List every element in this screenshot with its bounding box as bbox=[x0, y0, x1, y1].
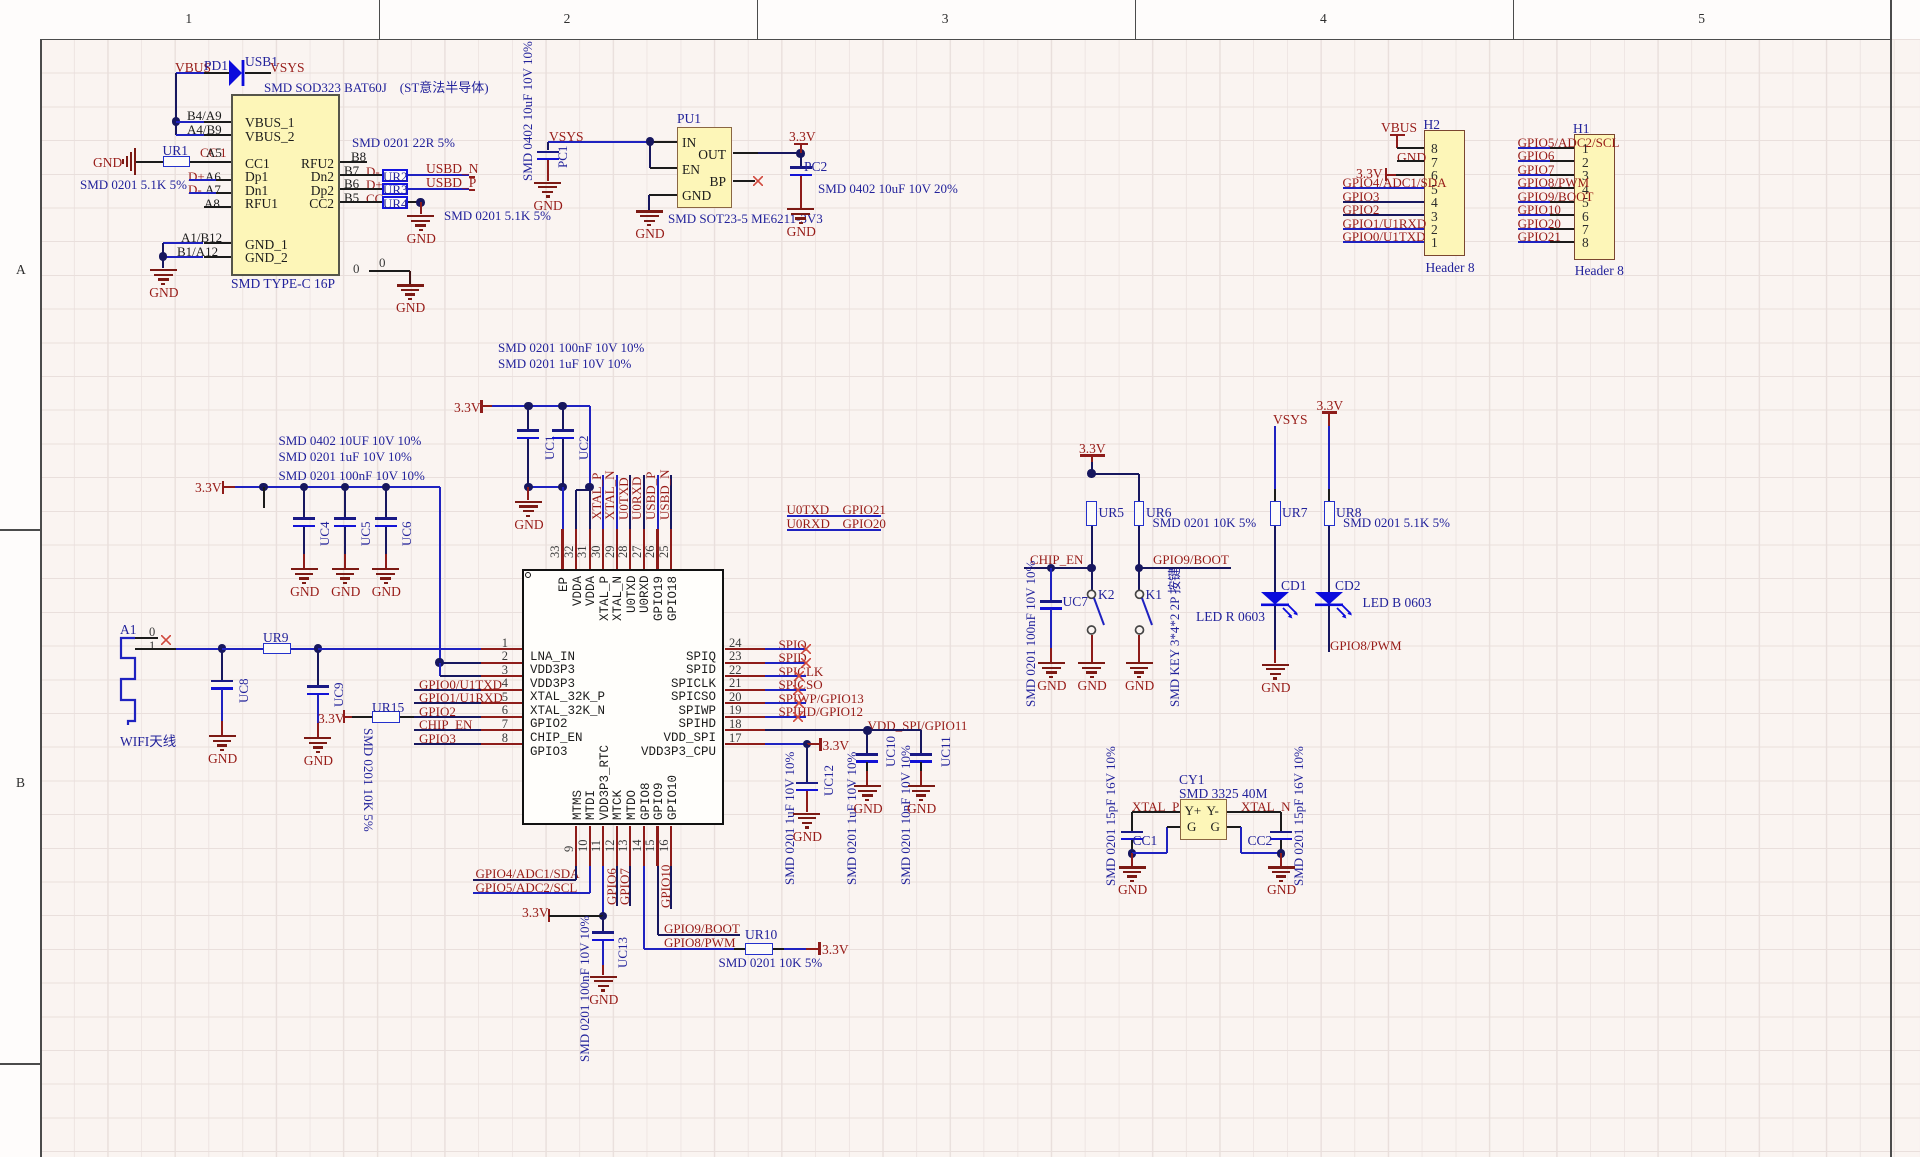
wire CHIP_EN bbox=[1024, 567, 1092, 569]
capacitor UC12 bbox=[806, 744, 808, 782]
LED CD1 value bbox=[1196, 609, 1265, 625]
wire XTAL_N to CC2 bbox=[1227, 811, 1281, 813]
values for UC4 UC5 UC6 bbox=[279, 433, 422, 449]
net label GPIO5/ADC2/SCL bbox=[476, 880, 578, 896]
ground below UR4 bbox=[420, 202, 422, 214]
USB Type-C connector J1 body bbox=[231, 94, 340, 276]
wire pin13 GPIO7 bbox=[629, 866, 631, 906]
net table U0RXD GPIO20 bbox=[787, 516, 830, 532]
IC pin 18 VDD_SPI bbox=[725, 729, 766, 731]
wire RFU2 bbox=[340, 161, 367, 163]
junction bbox=[416, 198, 424, 206]
IC pin 4 XTAL_32K_P bbox=[481, 689, 522, 691]
resistor UR7 bbox=[1270, 501, 1281, 526]
capacitor CC2 bbox=[1270, 831, 1292, 834]
resistor UR5 bbox=[1086, 501, 1097, 526]
wire GND_1 bbox=[163, 242, 203, 244]
net label USBD_P vertical bbox=[657, 475, 659, 529]
IC pin 29 XTAL_N bbox=[616, 529, 618, 569]
IC pin 3 VDD3P3 bbox=[481, 675, 522, 677]
net label USBD_N bbox=[426, 161, 479, 177]
net label SPICSO bbox=[779, 677, 823, 693]
net label USB1 bbox=[245, 54, 278, 70]
IC pin 16 GPIO10 bbox=[670, 826, 672, 867]
power 3.3V above UR8 bbox=[1317, 398, 1344, 414]
IC pin 22 SPICLK bbox=[725, 675, 766, 677]
UC13 value vertical bbox=[577, 916, 593, 1062]
wire to K2 bbox=[1091, 568, 1093, 590]
wire CC2 to UR4 bbox=[340, 201, 382, 203]
LED CD2 bbox=[1313, 590, 1361, 624]
net label VBUS bbox=[175, 60, 211, 76]
wire RFU1 bbox=[204, 206, 231, 208]
ground below PC1 bbox=[547, 160, 549, 181]
ground below UC10 bbox=[866, 762, 868, 771]
wire 0 ohm to gnd bbox=[369, 270, 410, 272]
wire UR3 to USBD_P bbox=[408, 188, 469, 190]
wire CD2 to GPIO8/PWM bbox=[1328, 606, 1330, 652]
net label GPIO0/U1TXD bbox=[419, 677, 502, 693]
UC7 value vertical bbox=[1023, 561, 1039, 707]
wire Dp1 bbox=[189, 179, 216, 181]
wire Dn1 bbox=[189, 192, 216, 194]
CC1 value vertical bbox=[1103, 746, 1119, 886]
PC2 value bbox=[818, 181, 958, 197]
wire BP no connect bbox=[733, 180, 756, 182]
net label XTAL_P bbox=[1132, 799, 1179, 815]
capacitor UC11 bbox=[920, 730, 922, 753]
wire UR8 to CD2 bbox=[1328, 526, 1330, 592]
Type-C value SMD TYPE-C 16P bbox=[231, 276, 335, 292]
H2 net label GPIO3 bbox=[1343, 189, 1380, 205]
H1 net label GPIO7 bbox=[1518, 162, 1555, 178]
IC pin 33 EP bbox=[561, 529, 563, 569]
resistor UR1 bbox=[163, 156, 191, 168]
pin label B5 CC bbox=[344, 190, 359, 206]
wire to UR6 bbox=[1092, 473, 1140, 475]
resistor UR9 bbox=[263, 643, 291, 655]
pin label A8 bbox=[204, 196, 220, 212]
wire to K1 bbox=[1138, 568, 1140, 590]
power 3.3V left rail bbox=[195, 480, 222, 496]
net table U0TXD GPIO21 bbox=[787, 502, 830, 518]
capacitor UC5 bbox=[341, 483, 349, 491]
capacitor UC1 bbox=[524, 402, 532, 410]
crystal CY1 body bbox=[1180, 799, 1227, 841]
wire UR6 to GPIO9 bbox=[1138, 526, 1140, 568]
wire UR4 to gnd bbox=[408, 201, 421, 203]
net label CHIP_EN bbox=[1030, 552, 1083, 568]
H2 pin8 VBUS bbox=[1381, 120, 1417, 136]
IC pin 24 SPIQ bbox=[725, 648, 766, 650]
pin label A1/B12 bbox=[181, 230, 222, 246]
wire VDD3P3_CPU to 3.3V bbox=[765, 743, 807, 745]
net label U0TXD vertical bbox=[629, 475, 631, 529]
H2 net label GPIO4/ADC1/SDA bbox=[1343, 175, 1447, 191]
LED CD1 bbox=[1259, 590, 1307, 624]
antenna pin 0 no connect bbox=[135, 637, 158, 639]
K1 value vertical SMD KEY bbox=[1164, 568, 1183, 707]
ground below UC4 bbox=[303, 527, 305, 555]
H2 net label GPIO2 bbox=[1343, 202, 1380, 218]
diode D1 value SMD SOD323 BAT60J bbox=[264, 77, 489, 96]
wires VDDA pins to 3.3V bbox=[562, 487, 564, 528]
IC pin 1 LNA_IN bbox=[481, 648, 522, 650]
net label SPICLK bbox=[779, 664, 824, 680]
net label VDD_SPI/GPIO11 bbox=[868, 718, 968, 734]
IC pin 25 GPIO18 bbox=[670, 529, 672, 569]
resistor UR15 bbox=[372, 711, 400, 723]
capacitor PC1 value vertical bbox=[520, 41, 536, 181]
wire pin9 to GPIO4 bbox=[575, 866, 577, 880]
wire CY1 G pin right bbox=[1227, 826, 1241, 828]
IC pin 14 GPIO8 bbox=[643, 826, 645, 867]
diode D1 bbox=[228, 59, 246, 87]
ground below UC9 bbox=[317, 695, 319, 724]
capacitor UC8 bbox=[221, 649, 223, 680]
net label GPIO8/PWM bbox=[1330, 638, 1402, 654]
IC pin 28 U0TXD bbox=[629, 529, 631, 569]
wire gnd vertical bbox=[162, 243, 164, 269]
wire VSYS to UR7 bbox=[1274, 426, 1276, 489]
resistor UR4 bbox=[382, 196, 409, 209]
H2 pin6 3.3V bbox=[1356, 166, 1383, 182]
capacitor UC9 bbox=[317, 649, 319, 686]
net label SPID bbox=[779, 650, 807, 666]
wire CD1 to gnd bbox=[1274, 606, 1276, 650]
net label GPIO9/BOOT bbox=[664, 921, 740, 937]
IC pin 9 MTMS bbox=[575, 826, 577, 867]
wire 3.3V rail down to IC bbox=[439, 487, 441, 663]
wire XTAL_P to CC1 bbox=[1132, 811, 1180, 813]
net label D+ / pin A6 bbox=[188, 169, 205, 185]
H2 net label GPIO1/U1RXD bbox=[1343, 216, 1427, 232]
IC pin 26 GPIO19 bbox=[656, 529, 658, 569]
wire pin16 GPIO10 bbox=[670, 866, 672, 909]
net label GPIO9/BOOT bbox=[1153, 552, 1229, 568]
IC pin 10 MTDI bbox=[589, 826, 591, 867]
wire UR5 to CHIP_EN bbox=[1091, 526, 1093, 568]
IC pin 2 VDD3P3 bbox=[481, 662, 522, 664]
H1 net label GPIO20 bbox=[1518, 216, 1561, 232]
net label USBD_P bbox=[426, 175, 476, 191]
wire pin10 to GPIO5 bbox=[589, 866, 591, 893]
capacitor UC4 bbox=[300, 483, 308, 491]
sheet frame and ruler bbox=[0, 0, 1920, 39]
antenna pin 1 bbox=[149, 639, 155, 654]
power symbol 3.3V bbox=[789, 129, 816, 145]
values for UC1 UC2 bbox=[498, 340, 644, 356]
value SMD 0201 22R 5% bbox=[352, 135, 455, 151]
IC pin 21 SPICSO bbox=[725, 689, 766, 691]
wire Dn2 to UR2 bbox=[340, 174, 382, 176]
IC pin 13 MTDO bbox=[629, 826, 631, 867]
capacitor CC1 bbox=[1121, 831, 1143, 834]
capacitor PC2 bbox=[800, 153, 802, 166]
IC pin1 mark bbox=[525, 572, 531, 578]
wire UR2 to USBD_N bbox=[408, 174, 469, 176]
ground below UC13 bbox=[602, 941, 604, 965]
wire UR7 to CD1 bbox=[1274, 526, 1276, 592]
wire antenna to LNA_IN bbox=[318, 648, 481, 650]
voltage regulator PU1 bbox=[677, 127, 732, 208]
IC pin 7 CHIP_EN bbox=[481, 729, 522, 731]
diode D1 designator PD1 bbox=[204, 58, 228, 74]
power 3.3V above UR5 bbox=[1079, 441, 1106, 457]
wire UR1 to CC1 pin bbox=[190, 161, 231, 163]
junction bbox=[1087, 469, 1095, 477]
resistor UR10 bbox=[745, 943, 773, 955]
net label XTAL_N bbox=[1241, 799, 1291, 815]
net label USBD_N vertical bbox=[670, 475, 672, 529]
ground below 0 ohm bbox=[397, 284, 424, 286]
pin label B7 D- bbox=[344, 163, 359, 179]
pin label B8 bbox=[351, 149, 366, 165]
wire pin15 GPIO9 bbox=[657, 866, 659, 935]
IC pin 5 XTAL_32K_N bbox=[481, 702, 522, 704]
H1 net label GPIO21 bbox=[1518, 229, 1561, 245]
ground symbol left of UR1 (rotated) bbox=[93, 155, 122, 171]
pin label B1/A12 bbox=[177, 244, 218, 260]
UR15 value vertical bbox=[360, 728, 376, 832]
junction UC8 bbox=[218, 644, 226, 652]
pin label B4/A9 bbox=[187, 108, 222, 124]
ground below CC1 bbox=[1131, 853, 1133, 865]
resistor UR8 bbox=[1324, 501, 1335, 526]
net label CHIP_EN bbox=[419, 717, 472, 733]
IC pin 17 VDD3P3_CPU bbox=[725, 743, 766, 745]
wire OUT to 3.3V bbox=[733, 152, 759, 154]
wire 3.3V to VDD3P3 pins bbox=[435, 658, 443, 666]
net label GPIO4/ADC1/SDA bbox=[476, 866, 580, 882]
Type-C inside pin names bbox=[245, 115, 295, 131]
main IC U1 body bbox=[522, 569, 725, 826]
resistor UR3 bbox=[382, 183, 409, 196]
wire to VBUS_1 pin bbox=[176, 121, 204, 123]
H1 net label GPIO8/PWM bbox=[1518, 175, 1590, 191]
ground below UC6 bbox=[385, 527, 387, 555]
ground below UC8 bbox=[221, 689, 223, 721]
UR6 value bbox=[1153, 515, 1257, 531]
ground below UC7 bbox=[1050, 609, 1052, 648]
net label U0RXD vertical bbox=[643, 475, 645, 529]
net label VSYS bbox=[270, 60, 305, 76]
H1 net label GPIO10 bbox=[1518, 202, 1561, 218]
wire UR15 to GPIO2 bbox=[400, 716, 414, 718]
capacitor UC2 bbox=[558, 402, 566, 410]
H2 pin7 GND bbox=[1397, 150, 1426, 166]
net label GPIO1/U1RXD bbox=[419, 690, 503, 706]
IC pin 32 VDDA bbox=[575, 529, 577, 569]
capacitor UC13 bbox=[602, 916, 604, 932]
wire UC8 to UR9 bbox=[222, 648, 263, 650]
H1 net label GPIO5/ADC2/SCL bbox=[1518, 135, 1620, 151]
gnd rail under UC1 UC2 bbox=[527, 439, 529, 488]
IC pin 11 VDD3P3_RTC bbox=[602, 826, 604, 867]
pin label A4/B9 bbox=[187, 122, 222, 138]
IC pin 31 VDDA bbox=[589, 529, 591, 569]
wire CC2 to gnd junction bbox=[1280, 840, 1282, 854]
value SMD 0201 5.1K 5% bbox=[444, 208, 551, 224]
net label SPIHD/GPIO12 bbox=[779, 704, 864, 720]
wire diode cathode to VSYS bbox=[245, 72, 271, 74]
resistor UR6 bbox=[1134, 501, 1145, 526]
junction IN/EN bbox=[646, 137, 654, 145]
CC2 value vertical bbox=[1291, 746, 1307, 886]
resistor 0 ohm labels bbox=[353, 261, 360, 277]
H1 net label GPIO9/BOOT bbox=[1518, 189, 1594, 205]
net label SPIWP/GPIO13 bbox=[779, 691, 864, 707]
power 3.3V tick bbox=[807, 743, 821, 745]
antenna A1 bbox=[120, 622, 137, 638]
stub wire bbox=[259, 483, 267, 491]
ground below PU1 bbox=[636, 210, 663, 212]
IC pin 30 XTAL_P bbox=[602, 529, 604, 569]
UR8 value bbox=[1343, 515, 1450, 531]
switch K2 bbox=[1083, 588, 1113, 636]
crystal CY1 designator bbox=[1179, 772, 1205, 788]
wire pin14 GPIO8 to UR10 bbox=[643, 866, 645, 949]
UR1 value SMD 0201 5.1K 5% bbox=[80, 177, 187, 193]
header H1 bbox=[1574, 134, 1615, 260]
PU1 value SMD SOT23-5 ME6211-3V3 bbox=[668, 211, 823, 227]
wire UR10 to 3.3V bbox=[773, 948, 784, 950]
ground below PC2 bbox=[800, 176, 802, 208]
IC pin 27 U0RXD bbox=[643, 529, 645, 569]
net label SPIQ bbox=[779, 637, 807, 653]
resistor UR2 bbox=[382, 169, 409, 182]
power 3.3V for UR15 bbox=[318, 711, 345, 727]
wire Dp2 to UR3 bbox=[340, 188, 382, 190]
net label GPIO8/PWM bbox=[664, 935, 736, 951]
IC pin 12 MTCK bbox=[616, 826, 618, 867]
wire GND to UR1 bbox=[136, 161, 163, 163]
capacitor UC7 bbox=[1050, 568, 1052, 600]
net label XTAL_N vertical bbox=[616, 475, 618, 529]
net label XTAL_P vertical bbox=[602, 475, 604, 529]
junction OUT bbox=[796, 149, 804, 157]
wire PU1 GND pin bbox=[649, 194, 677, 196]
IC pin 8 GPIO3 bbox=[481, 743, 522, 745]
header H2 bbox=[1424, 130, 1465, 256]
IC pin 23 SPID bbox=[725, 662, 766, 664]
wire K2 to gnd bbox=[1091, 635, 1093, 662]
UR10 value bbox=[719, 955, 823, 971]
H2 net label GPIO0/U1TXD bbox=[1343, 229, 1426, 245]
H1 net label GPIO6 bbox=[1518, 148, 1555, 164]
switch K1 bbox=[1131, 588, 1161, 636]
wire VBUS vertical to connector bbox=[175, 73, 177, 135]
wire UR9 to junction bbox=[291, 648, 318, 650]
capacitor UC10 bbox=[866, 730, 868, 753]
net label CC over A5 bbox=[200, 145, 217, 161]
ground below UC12 bbox=[806, 791, 808, 812]
ground connector GND bbox=[150, 269, 177, 271]
power 3.3V bbox=[454, 400, 481, 416]
junction GND_2 bbox=[159, 252, 167, 260]
wire K1 to gnd bbox=[1138, 635, 1140, 662]
net label GPIO3 bbox=[419, 731, 456, 747]
net label VSYS above UR7 bbox=[1273, 412, 1308, 428]
junction VBUS_1 bbox=[172, 117, 180, 125]
wire pin12 GPIO6 bbox=[616, 866, 618, 906]
ground below UC5 bbox=[344, 527, 346, 555]
wire VBUS to diode anode bbox=[176, 72, 204, 74]
LED CD2 value bbox=[1363, 595, 1432, 611]
capacitor PC1 bbox=[547, 142, 549, 151]
wire pin11 to 3.3V and UC13 bbox=[602, 866, 604, 916]
junction UC9 bbox=[314, 644, 322, 652]
wire CY1 G pin left bbox=[1132, 852, 1167, 854]
IC pin 15 GPIO9 bbox=[656, 826, 658, 867]
wire 3.3V to VDDA corner bbox=[589, 406, 591, 487]
net label D- / pin A7 bbox=[188, 182, 202, 198]
ground below UC11 bbox=[920, 762, 922, 771]
wire EN branch bbox=[649, 142, 651, 169]
capacitor UC6 bbox=[382, 483, 390, 491]
pin label B6 D+ bbox=[344, 176, 359, 192]
wire VSYS rail bbox=[548, 141, 651, 143]
ground below UC1 bbox=[527, 487, 529, 500]
wire GND_2 bbox=[163, 256, 203, 258]
wire CC1 to gnd junction bbox=[1131, 840, 1133, 854]
wire to VBUS_2 pin bbox=[176, 134, 204, 136]
IC pin 6 GPIO2 bbox=[481, 716, 522, 718]
IC pin 19 SPIHD bbox=[725, 716, 766, 718]
net label VSYS bbox=[549, 129, 584, 145]
ground below CC2 bbox=[1280, 853, 1282, 865]
crystal CY1 value bbox=[1179, 786, 1268, 802]
net label GPIO2 bbox=[419, 704, 456, 720]
IC pin 20 SPIWP bbox=[725, 702, 766, 704]
wire VDD_SPI bbox=[765, 729, 921, 731]
